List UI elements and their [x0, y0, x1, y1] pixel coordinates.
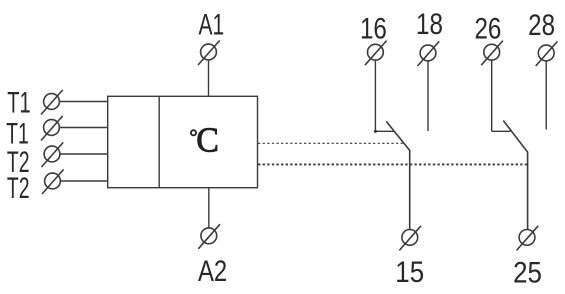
svg-text:26: 26 [474, 12, 501, 45]
wire 16 fixed-contact horizontal [375, 130, 393, 132]
terminal T2-2 [42, 169, 64, 194]
terminal 25 [517, 226, 539, 251]
svg-text:25: 25 [513, 256, 542, 289]
svg-text:18: 18 [416, 8, 443, 41]
contact arm 15-16 changeover [386, 121, 410, 229]
wire 18 (NO dead end) [427, 61, 429, 131]
svg-text:15: 15 [395, 255, 424, 288]
svg-text:C: C [196, 121, 219, 160]
svg-text:A1: A1 [198, 9, 224, 41]
dashed actuation link upper [258, 142, 404, 144]
wire T1 row 2 [60, 127, 108, 129]
wire 26 fixed-contact horizontal [492, 130, 511, 132]
svg-text:T2: T2 [7, 172, 30, 205]
terminal 15 [399, 226, 421, 251]
svg-text:T1: T1 [7, 87, 30, 120]
terminal T1-1 [41, 90, 63, 115]
wire 26 vertical [491, 60, 493, 132]
wire T2 row 4 [61, 180, 108, 182]
terminal 26 [481, 41, 503, 66]
terminal A1 [198, 40, 220, 65]
svg-text:A2: A2 [198, 255, 227, 288]
relay body box [108, 96, 258, 187]
wire A1 [208, 60, 210, 96]
terminal 18 [418, 41, 440, 66]
svg-text:16: 16 [360, 12, 387, 45]
wire 16 vertical [374, 60, 376, 132]
terminal T1-2 [41, 116, 63, 141]
wire T1 row 1 [60, 101, 108, 103]
wire 28 (NO dead end) [545, 61, 547, 130]
contact arm 25-26 changeover [503, 121, 527, 230]
svg-text:28: 28 [528, 9, 555, 42]
junction dot contact1 [374, 130, 377, 133]
wire T2 row 3 [60, 153, 108, 155]
terminal 28 [536, 41, 558, 66]
box divider [158, 96, 160, 187]
degree ring of temperature symbol [191, 130, 196, 135]
terminal 16 [365, 41, 387, 66]
dashed actuation link lower [258, 163, 527, 165]
terminal A2 [198, 224, 220, 249]
terminal T2-1 [42, 142, 64, 167]
wire A2 [208, 188, 210, 228]
